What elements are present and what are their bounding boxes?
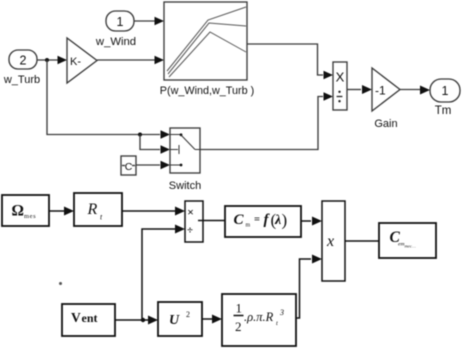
inport 2 (w_Turb) — [9, 50, 37, 69]
svg-text:.ρ.π.R: .ρ.π.R — [244, 310, 274, 324]
svg-text:÷: ÷ — [187, 225, 193, 237]
svg-text:R: R — [87, 201, 98, 218]
block C_em_mec — [379, 223, 436, 258]
lookup table P(w_Wind,w_Turb) — [164, 2, 247, 80]
block Cm = f(lambda) — [225, 206, 301, 237]
svg-text:Tm: Tm — [435, 105, 452, 117]
svg-text:1: 1 — [442, 84, 449, 98]
svg-text:mec…: mec… — [405, 244, 416, 249]
arrowhead into switch in2 — [161, 145, 171, 154]
svg-text:x: x — [326, 233, 334, 250]
wire K- to lookup table in2 — [97, 59, 155, 61]
wire product2 to Cm block — [198, 220, 225, 222]
product2 (x over divide) — [185, 201, 203, 242]
arrowhead into lookup in1 — [155, 17, 165, 26]
node junction on Vent wire — [141, 318, 145, 322]
wire Rt to product2 in1 — [122, 210, 175, 212]
wire lookup out to product in1 — [247, 44, 323, 75]
wire w_Turb down to switch in1 — [47, 60, 160, 135]
svg-text:t: t — [276, 320, 278, 327]
wire rho block up to multiplier in2 — [296, 259, 311, 318]
svg-text:U: U — [169, 313, 180, 328]
wire from Vent junction up to product2 in2 — [142, 229, 175, 320]
multiplier x (tall) — [322, 201, 345, 281]
arrowhead into product2 in2 — [175, 225, 185, 234]
stray speck — [59, 282, 62, 285]
wire switch out to product in2 — [200, 97, 323, 150]
svg-text:ent: ent — [82, 311, 98, 325]
block half rho pi R cubed — [222, 294, 296, 346]
svg-text:em: em — [398, 242, 404, 248]
svg-text:2: 2 — [20, 54, 27, 68]
wire branch to switch in2 — [140, 135, 160, 150]
svg-text:λ: λ — [274, 213, 281, 228]
gain -1 — [372, 68, 400, 111]
block Rt — [74, 193, 122, 226]
wire C to switch in3 — [136, 164, 160, 166]
arrowhead into product in2 — [324, 92, 334, 101]
wire multiplier to Cem block — [345, 240, 379, 242]
svg-text:2: 2 — [235, 319, 242, 334]
svg-text:m: m — [246, 223, 251, 229]
block Omega_mes — [2, 195, 49, 226]
svg-text:1: 1 — [117, 15, 124, 29]
wire U2 to rho block — [202, 318, 212, 320]
constant C — [121, 156, 136, 175]
svg-text:w_Wind: w_Wind — [95, 36, 136, 48]
svg-text:Ω: Ω — [12, 203, 24, 220]
wire Vent to U2 — [115, 319, 148, 321]
svg-text:X: X — [336, 70, 345, 85]
svg-text:3: 3 — [279, 308, 284, 317]
svg-text:V: V — [71, 310, 81, 325]
arrowhead into switch in1 — [161, 130, 171, 139]
arrowhead into gain — [362, 85, 372, 94]
svg-text:Switch: Switch — [169, 180, 201, 192]
node junction on w_Turb wire — [45, 58, 49, 62]
svg-text:-1: -1 — [375, 84, 386, 98]
svg-text:mes: mes — [24, 213, 36, 220]
wire inport2 to gain K- — [37, 59, 58, 61]
svg-text:): ) — [282, 211, 288, 230]
svg-text:K-: K- — [70, 56, 81, 68]
svg-text:1: 1 — [236, 301, 243, 316]
arrowhead into U2 — [148, 316, 158, 325]
arrowhead into multiplier in2 — [312, 255, 322, 264]
arrowhead into K- — [58, 56, 68, 65]
svg-text:C: C — [125, 161, 133, 173]
wire Cm to multiplier in1 — [301, 220, 311, 222]
svg-text:=: = — [254, 215, 260, 226]
product X / divide — [333, 62, 347, 110]
svg-text:P(w_Wind,w_Turb ): P(w_Wind,w_Turb ) — [160, 85, 254, 97]
arrowhead into product2 in1 — [175, 207, 185, 216]
svg-text:2: 2 — [186, 310, 190, 319]
block Vent — [62, 304, 115, 336]
svg-text:×: × — [187, 205, 194, 219]
svg-text:w_Turb: w_Turb — [3, 74, 40, 86]
gain K- — [67, 38, 97, 83]
arrowhead into switch in3 — [161, 161, 171, 170]
switch — [170, 128, 200, 173]
wire inport1 to lookup table in1 — [134, 20, 155, 22]
wire product to gain — [347, 89, 361, 91]
block U squared — [158, 302, 202, 336]
arrowhead into multiplier in1 — [312, 217, 322, 226]
arrowhead into rho block — [212, 315, 222, 324]
wire gain to outport — [400, 89, 420, 91]
arrowhead into Rt — [64, 207, 74, 216]
arrowhead into outport Tm — [420, 86, 430, 95]
wire Omega to Rt — [49, 210, 64, 212]
svg-text:C: C — [234, 212, 245, 228]
svg-text:Gain: Gain — [374, 118, 397, 130]
node junction on switch in1 wire — [138, 133, 142, 137]
arrowhead into product in1 — [324, 71, 334, 80]
arrowhead into lookup in2 — [155, 56, 165, 65]
inport 1 (w_Wind) — [106, 11, 134, 31]
outport 1 (Tm) — [430, 79, 460, 102]
